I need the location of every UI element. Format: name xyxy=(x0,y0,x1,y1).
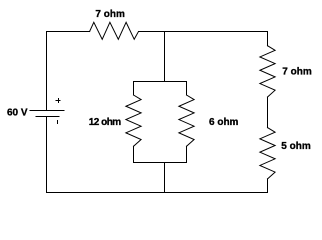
wire top rail right xyxy=(139,31,268,33)
wire bottom rail xyxy=(47,192,268,194)
resistor R2 12 ohm (left vertical zigzag) xyxy=(126,95,141,146)
wire 12 ohm bottom stub xyxy=(133,146,135,162)
battery plus sign xyxy=(56,99,60,103)
wire parallel bottom connector xyxy=(134,162,187,164)
resistor R4 7 ohm (right vertical zigzag) xyxy=(260,46,275,97)
wire parallel top connector xyxy=(134,81,187,83)
battery V1 bottom plate xyxy=(36,116,59,118)
wire middle vertical upper xyxy=(164,32,166,82)
wire 6 ohm bottom stub xyxy=(186,146,188,162)
resistor R3 6 ohm (right-middle vertical zigzag) xyxy=(179,95,194,146)
wire top rail left xyxy=(47,31,90,33)
svg-text:12 ohm: 12 ohm xyxy=(89,117,122,128)
wire middle vertical lower xyxy=(164,163,166,193)
wire 6 ohm top stub xyxy=(186,82,188,96)
wire right vertical bottom xyxy=(267,179,269,193)
svg-text:7 ohm: 7 ohm xyxy=(282,67,312,78)
wire left vertical lower xyxy=(46,117,48,193)
resistor R1 7 ohm (top horizontal zigzag) xyxy=(90,22,139,39)
battery V1 top plate xyxy=(30,110,64,112)
wire right vertical middle xyxy=(267,97,269,128)
wire 12 ohm top stub xyxy=(133,82,135,96)
svg-text:5 ohm: 5 ohm xyxy=(281,141,311,152)
svg-text:7 ohm: 7 ohm xyxy=(95,9,125,20)
wire right vertical top stub xyxy=(267,32,269,46)
svg-text:6 ohm: 6 ohm xyxy=(209,117,239,128)
battery minus sign xyxy=(57,121,59,124)
wire left vertical upper xyxy=(46,32,48,111)
resistor R5 5 ohm (right lower vertical zigzag) xyxy=(260,128,275,179)
svg-text:60 V: 60 V xyxy=(7,108,28,119)
